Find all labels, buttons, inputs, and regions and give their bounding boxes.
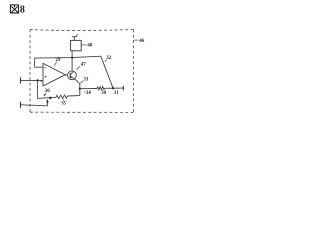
leader for label 48 <box>81 44 86 46</box>
leader arrow for label 36 <box>45 93 46 95</box>
wire: box 48 down to transistor collector <box>71 51 73 71</box>
input terminal tick (lower left) <box>20 102 22 108</box>
antenna symbol atop box 48 <box>72 35 78 41</box>
op-amp 29 <box>43 63 65 86</box>
leader for label 35 <box>62 99 64 101</box>
wire: op-amp output to transistor base <box>65 74 67 77</box>
wire: non-inverting input line <box>21 79 44 81</box>
minus mark <box>45 67 47 69</box>
wire: main rail left of resistor <box>80 88 97 90</box>
svg-text:8: 8 <box>20 5 25 16</box>
figure title 図 8 <box>10 5 18 13</box>
svg-text:47: 47 <box>81 63 87 68</box>
wire: lower input line with arrow up to rail <box>21 101 48 106</box>
wire: diagonal 32 <box>101 56 113 88</box>
svg-text:32: 32 <box>106 56 112 61</box>
wire: lower rail right segment <box>67 95 79 97</box>
dashed enclosure box 46 <box>30 29 133 32</box>
svg-text:36: 36 <box>45 89 51 94</box>
node junction emitter/rail <box>79 88 81 90</box>
svg-text:34: 34 <box>86 91 92 96</box>
wire: feedback top line <box>35 56 101 67</box>
svg-text:29: 29 <box>55 58 61 63</box>
node junction on feedback line <box>71 56 73 58</box>
arrowhead at node <box>46 99 49 102</box>
leader dash for label 34 <box>84 91 86 93</box>
wire: left branch down <box>36 80 38 98</box>
node junction on lower rail <box>49 97 52 100</box>
node junction diagonal/rail <box>112 87 114 89</box>
svg-text:31: 31 <box>114 91 120 96</box>
svg-text:35: 35 <box>61 101 67 106</box>
svg-text:30: 30 <box>101 91 107 96</box>
svg-text:33: 33 <box>83 77 89 82</box>
input terminal tick (upper left) <box>20 77 22 83</box>
leader for label 32 <box>105 59 107 62</box>
svg-text:48: 48 <box>87 44 93 49</box>
rail end tick <box>122 86 124 91</box>
transistor Q47 circle <box>68 71 77 80</box>
leader for label 29 <box>54 62 57 67</box>
transistor collector stroke <box>70 72 73 75</box>
transistor emitter stroke with arrow <box>70 76 74 79</box>
plus mark <box>45 76 47 78</box>
svg-text:46: 46 <box>139 39 145 44</box>
leader for label 47 <box>76 66 80 70</box>
block 48 <box>71 40 82 50</box>
wire: lower rail left segment <box>37 97 56 98</box>
transistor base bar <box>69 73 71 78</box>
resistor R30 <box>97 87 105 91</box>
wire: emitter lead down <box>75 79 80 96</box>
leader for label 46 <box>134 39 139 41</box>
leader for label 33 <box>80 81 83 84</box>
resistor R35 <box>56 95 68 99</box>
wire: inverting input stub <box>35 66 43 68</box>
wire: main rail right of resistor <box>105 87 124 89</box>
node junction at + input <box>36 79 38 81</box>
